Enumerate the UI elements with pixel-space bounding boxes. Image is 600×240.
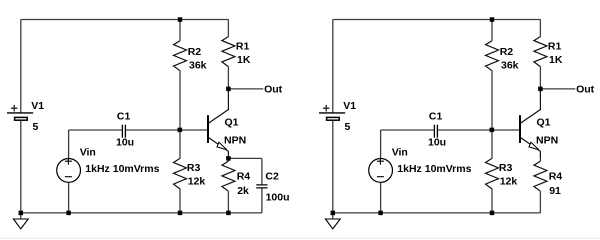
voltage source Vin (left) (57, 158, 81, 183)
svg-text:R1: R1 (236, 40, 250, 52)
resistor R1 (right) (534, 20, 547, 89)
junction node R2 top (right) (490, 17, 495, 22)
junction node emitter node (left) (226, 156, 231, 161)
svg-text:C1: C1 (429, 111, 443, 123)
wire Vin top lead (left) (68, 130, 70, 159)
faint window edge line at bottom (0, 238, 600, 239)
svg-text:100u: 100u (266, 192, 290, 204)
resistor R4 (right) (534, 158, 547, 213)
junction node R2 top (left) (178, 17, 183, 22)
svg-text:Vin: Vin (392, 146, 408, 158)
svg-text:R3: R3 (499, 162, 513, 174)
svg-text:12k: 12k (188, 176, 206, 188)
svg-text:Q1: Q1 (537, 117, 551, 129)
resistor R1 (left) (222, 20, 235, 89)
wire collector node to Out (right) (540, 88, 575, 90)
wire Vin top lead (right) (380, 130, 382, 159)
svg-text:1K: 1K (237, 54, 251, 66)
svg-text:C1: C1 (117, 111, 131, 123)
resistor R4 (left) (222, 158, 235, 213)
capacitor C1 (left) (122, 125, 125, 138)
resistor R3 (right) (486, 130, 499, 213)
ground symbol (left) (13, 213, 28, 229)
wire Vin to C1 (right) (381, 129, 434, 131)
junction node Out node (left) (226, 87, 231, 92)
svg-text:10u: 10u (116, 136, 134, 148)
wire top supply rail (left) (21, 19, 229, 21)
junction node ground rail at R3 (left) (178, 211, 183, 216)
wire V1 bottom to ground rail (left) (20, 121, 22, 213)
wire left vertical V1 top (right) (332, 20, 334, 113)
svg-text:C2: C2 (265, 170, 279, 182)
transistor Q1 NPN (right) (520, 89, 540, 158)
junction node base node (right) (490, 128, 495, 132)
svg-text:R1: R1 (548, 40, 562, 52)
wire top supply rail (right) (333, 19, 541, 21)
svg-text:12k: 12k (500, 176, 518, 188)
svg-text:V1: V1 (343, 100, 356, 112)
svg-text:R2: R2 (188, 46, 202, 58)
svg-text:NPN: NPN (224, 135, 246, 147)
svg-text:1K: 1K (549, 54, 563, 66)
wire base node to Q1 base (left) (180, 129, 207, 131)
transistor Q1 NPN (left) (208, 89, 228, 158)
svg-text:10u: 10u (428, 136, 446, 148)
junction node ground rail at R3 (right) (490, 211, 495, 216)
svg-text:NPN: NPN (536, 135, 558, 147)
wire emitter node to C2 (left) (228, 157, 262, 159)
svg-text:36k: 36k (189, 59, 207, 71)
wire collector node to Out (left) (228, 88, 263, 90)
resistor R2 (left) (174, 20, 187, 131)
svg-text:1kHz 10mVrms: 1kHz 10mVrms (397, 163, 471, 175)
resistor R3 (left) (174, 130, 187, 213)
svg-text:V1: V1 (31, 100, 44, 112)
svg-text:5: 5 (345, 121, 351, 133)
junction node ground rail at V1 (left) (19, 211, 24, 216)
battery V1 (left) (7, 105, 33, 120)
svg-text:Vin: Vin (80, 146, 96, 158)
svg-text:R4: R4 (549, 171, 563, 183)
wire left vertical V1 top (left) (20, 20, 22, 113)
wire C1 to base node (right) (438, 129, 492, 131)
svg-text:Q1: Q1 (225, 117, 239, 129)
svg-text:1kHz 10mVrms: 1kHz 10mVrms (85, 163, 159, 175)
wire Vin bottom lead (right) (380, 182, 382, 213)
junction node ground rail at Vin (left) (66, 211, 71, 216)
junction node ground rail at V1 (right) (331, 211, 336, 216)
battery V1 (right) (319, 105, 345, 120)
wire bottom ground rail (right) (333, 212, 541, 214)
wire base node to Q1 base (right) (492, 129, 519, 131)
svg-text:R4: R4 (237, 171, 251, 183)
junction node ground rail at R4 (left) (226, 211, 231, 216)
wire V1 bottom to ground rail (right) (332, 121, 334, 213)
junction node Out node (right) (538, 87, 543, 92)
svg-text:Out: Out (576, 84, 595, 96)
svg-text:36k: 36k (501, 59, 519, 71)
capacitor C1 (right) (434, 125, 437, 138)
capacitor C2 (left) (256, 158, 267, 213)
wire Vin bottom lead (left) (68, 182, 70, 213)
resistor R2 (right) (486, 20, 499, 131)
wire Vin to C1 (left) (69, 129, 122, 131)
junction node base node (left) (178, 128, 183, 132)
svg-text:2k: 2k (237, 185, 249, 197)
wire C1 to base node (left) (126, 129, 180, 131)
svg-text:Out: Out (264, 84, 283, 96)
voltage source Vin (right) (369, 158, 393, 183)
wire bottom ground rail (left) (21, 212, 262, 214)
junction node ground rail at Vin (right) (378, 211, 383, 216)
svg-text:R2: R2 (500, 46, 514, 58)
svg-text:5: 5 (33, 121, 39, 133)
svg-text:R3: R3 (187, 162, 201, 174)
svg-text:91: 91 (549, 185, 561, 197)
ground symbol (right) (325, 213, 340, 229)
